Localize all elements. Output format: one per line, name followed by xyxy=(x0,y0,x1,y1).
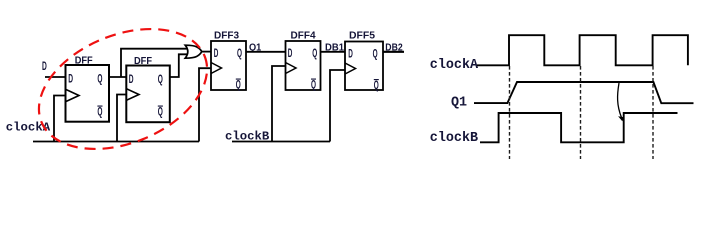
wire clockB to DFF4 clock xyxy=(272,66,286,142)
svg-text:Q: Q xyxy=(236,80,241,92)
wire clockB rail xyxy=(232,141,330,143)
svg-text:Q: Q xyxy=(158,74,163,86)
D flip-flop DFF5 xyxy=(345,30,383,92)
D flip-flop DFF4 xyxy=(286,30,321,91)
svg-text:Q: Q xyxy=(312,48,317,60)
svg-text:DFF5: DFF5 xyxy=(349,30,375,41)
D flip-flop DFF2 xyxy=(126,56,170,122)
wire DFF2.Q to OR gate lower input xyxy=(170,54,187,77)
D flip-flop DFF3 xyxy=(211,30,246,91)
wire clockA to DFF3 clock xyxy=(199,68,211,141)
wire clockA to DFF2 clock xyxy=(117,95,126,142)
arrow Q1 sampled by clockB xyxy=(618,83,625,121)
D flip-flop DFF1 xyxy=(66,56,110,122)
OR gate U1 xyxy=(185,45,202,58)
wire clockA rail xyxy=(33,141,199,143)
svg-text:Q: Q xyxy=(374,80,379,92)
wire DFF1.Q branch up to OR gate input xyxy=(121,49,187,77)
svg-text:Q1: Q1 xyxy=(451,96,467,111)
red dashed ellipse highlight xyxy=(21,6,225,172)
wire D input to DFF1 xyxy=(45,76,66,78)
svg-text:D: D xyxy=(129,74,134,86)
dashed timing marker t1 xyxy=(509,66,511,159)
svg-text:Q: Q xyxy=(311,80,316,92)
timing waveform Q1 xyxy=(474,82,694,103)
svg-text:clockB: clockB xyxy=(430,131,478,146)
svg-text:Q: Q xyxy=(373,49,378,61)
svg-text:Q: Q xyxy=(97,74,102,86)
wire clockA to DFF1 clock xyxy=(54,96,66,142)
wire DB1: DFF4.Q to DFF5.D xyxy=(321,51,346,53)
svg-text:D: D xyxy=(68,74,73,86)
svg-text:D: D xyxy=(214,48,219,60)
svg-text:clockA: clockA xyxy=(430,58,479,73)
svg-text:DFF3: DFF3 xyxy=(214,30,239,41)
svg-text:Q: Q xyxy=(158,107,163,119)
wire Q1: DFF3.Q to DFF4.D xyxy=(246,51,286,53)
svg-text:D: D xyxy=(288,48,293,60)
wire OR output to DFF3.D xyxy=(202,51,211,53)
dashed timing marker t2 xyxy=(580,66,582,159)
svg-text:D: D xyxy=(348,49,353,61)
svg-text:Q: Q xyxy=(97,107,102,119)
timing waveform clockB xyxy=(480,113,678,142)
svg-text:D: D xyxy=(42,61,47,73)
wire DFF1.Q to DFF2.D xyxy=(109,76,126,78)
dashed timing marker t3 xyxy=(652,66,654,159)
wire clockB to DFF5 clock xyxy=(330,70,345,142)
timing waveform clockA xyxy=(477,35,688,65)
svg-text:Q: Q xyxy=(237,48,242,60)
svg-text:DFF4: DFF4 xyxy=(291,30,316,41)
wire DB2 output xyxy=(383,51,404,53)
